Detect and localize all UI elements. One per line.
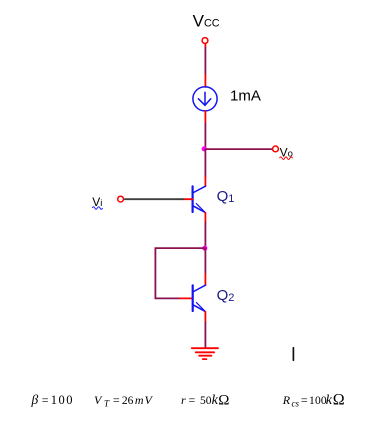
svg-text:100: 100 (309, 395, 327, 407)
svg-text:R: R (282, 393, 291, 407)
svg-text:V: V (94, 393, 103, 407)
svg-text:Vo: Vo (280, 146, 293, 160)
svg-text:Q2: Q2 (217, 287, 235, 304)
svg-text:=: = (42, 393, 49, 407)
svg-text:r: r (181, 393, 186, 407)
svg-text:=: = (301, 393, 308, 407)
svg-text:50: 50 (200, 395, 212, 407)
svg-text:mV: mV (135, 393, 154, 407)
svg-text:cs: cs (292, 399, 300, 409)
svg-text:Ω: Ω (333, 392, 345, 409)
svg-text:100: 100 (51, 393, 74, 407)
svg-text:T: T (104, 399, 110, 409)
svg-text:=: = (113, 393, 120, 407)
svg-text:Ω: Ω (218, 393, 229, 409)
svg-text:1mA: 1mA (230, 88, 261, 105)
svg-text:Vi: Vi (92, 195, 102, 209)
svg-text:β: β (31, 392, 39, 407)
svg-text:=: = (189, 393, 196, 407)
svg-text:VCC: VCC (193, 11, 220, 30)
svg-text:Q1: Q1 (217, 188, 235, 205)
svg-text:26: 26 (122, 395, 134, 407)
svg-text:k: k (326, 393, 333, 408)
